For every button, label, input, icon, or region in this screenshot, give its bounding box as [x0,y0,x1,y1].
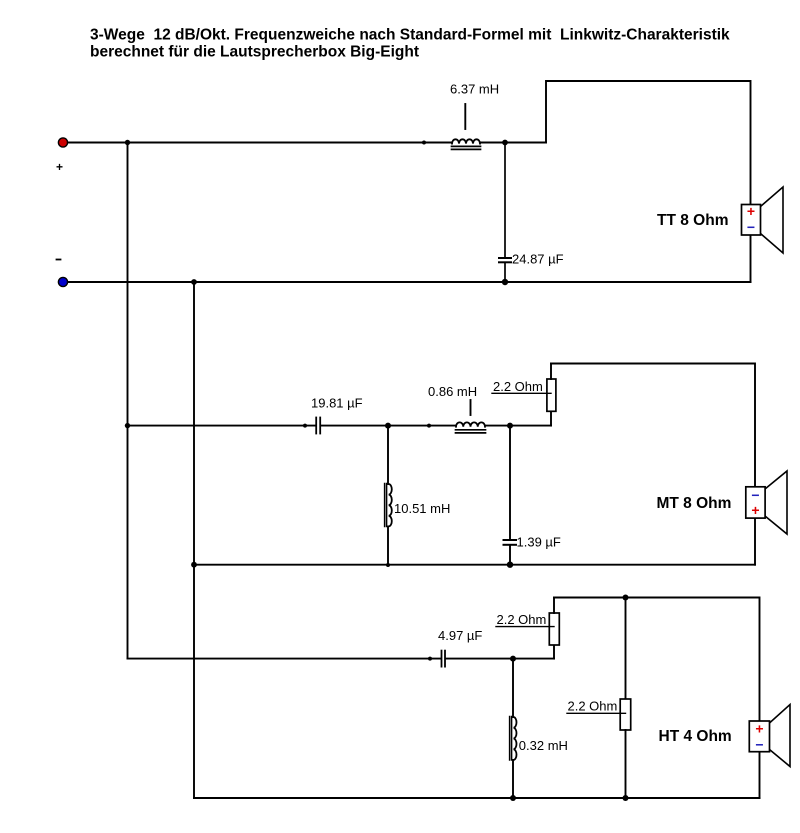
label speaker HT [659,728,732,745]
wire TT speaker to bottom [750,235,752,282]
inductor L4 10.51 mH vertical [385,426,392,565]
node HT bottom R tap [623,795,629,801]
svg-text:2.2 Ohm: 2.2 Ohm [568,699,618,714]
node TT minus tap [191,279,197,285]
title [90,27,730,61]
svg-text:10.51 mH: 10.51 mH [394,501,450,516]
capacitor C4 4.97 uF [442,651,446,667]
svg-text:6.37 mH: 6.37 mH [450,82,499,97]
node MT branch L [385,423,391,429]
label C4 [438,628,482,643]
svg-text:0.32 mH: 0.32 mH [519,738,568,753]
node HT bottom L tap [510,795,516,801]
svg-text:24.87 µF: 24.87 µF [512,252,564,267]
label C2 [311,396,363,411]
label speaker TT [657,212,728,229]
svg-text:2.2 Ohm: 2.2 Ohm [497,612,547,627]
wire MT speaker to bottom [754,518,756,565]
node MT bus tap [125,423,130,428]
svg-text:0.86 mH: 0.86 mH [428,384,477,399]
label L1 [450,82,499,97]
inductor L1 6.37 mH [452,104,481,149]
node TT cap bottom [502,279,508,285]
wire MT input [128,425,316,427]
node MT small dot 2 [427,424,431,428]
bus minus vertical [193,282,195,798]
node MT branch C [507,423,513,429]
wire MT bottom rail [194,564,755,566]
wire HT top rail [554,598,760,722]
wire MT after inductor [485,425,551,427]
wire TT inductor to step [480,142,546,144]
svg-text:−: − [747,219,755,235]
node MT small dot [303,424,307,428]
wire HT mid [446,658,554,660]
svg-text:1.39 µF: 1.39 µF [517,535,561,550]
minus label [57,259,61,261]
label L4 [394,501,450,516]
wire MT mid [321,425,456,427]
node MT bottom minus tap [191,562,197,568]
capacitor C2 19.81 uF [316,418,320,434]
label R1 [493,379,543,394]
node HT rail R tap [623,595,629,601]
terminal plus (red) [58,138,67,147]
svg-text:−: − [755,737,763,753]
inductor L3 0.32 mH vertical [510,659,517,798]
wire TT bottom rail [68,281,751,283]
terminal minus (blue) [58,277,67,286]
label L2 [428,384,477,399]
node TT small dot [422,141,426,145]
capacitor C1 24.87 uF [499,143,511,283]
node MT bottom L end [386,563,390,567]
label R3 [568,699,618,714]
node HT branch L [510,656,516,662]
label speaker MT [657,495,732,512]
svg-text:2.2 Ohm: 2.2 Ohm [493,379,543,394]
speaker TT [742,187,784,253]
wire TT step up and top rail [546,81,751,205]
resistor R3 2.2 Ohm [620,598,631,799]
svg-text:+: + [747,203,755,219]
label L3 [519,738,568,753]
node TT cap top [502,140,508,146]
svg-text:+: + [56,160,63,174]
wire TT input left [68,142,452,144]
leader R3 underline [567,712,626,714]
plus label [56,160,63,174]
inductor L2 0.86 mH [456,400,486,433]
node TT bus tap [125,140,130,145]
label C1 [512,252,564,267]
svg-text:−: − [751,487,759,503]
label R2 [497,612,547,627]
svg-text:MT 8 Ohm: MT 8 Ohm [657,495,732,512]
leader R1 underline [492,392,551,394]
svg-text:+: + [751,502,759,518]
resistor R1 2.2 Ohm [547,364,556,426]
speaker HT [749,705,790,767]
wire HT speaker to bottom [759,752,761,798]
svg-text:HT 4 Ohm: HT 4 Ohm [659,728,732,745]
wire HT input [128,658,442,660]
node HT small dot [428,657,432,661]
speaker MT [746,471,787,534]
leader R2 underline [496,626,554,628]
svg-text:+: + [755,721,763,737]
capacitor C3 1.39 uF [504,426,517,565]
svg-text:4.97 µF: 4.97 µF [438,628,482,643]
label C3 [517,535,561,550]
wire HT bottom rail [194,797,760,799]
resistor R2 2.2 Ohm [549,598,559,659]
svg-text:19.81 µF: 19.81 µF [311,396,363,411]
node MT bottom C tap [507,562,513,568]
svg-text:TT 8 Ohm: TT 8 Ohm [657,212,728,229]
bus plus vertical [127,143,129,659]
wire MT top rail [551,364,755,488]
svg-text:berechnet für die Lautsprecher: berechnet für die Lautsprecherbox Big-Ei… [90,44,419,61]
svg-text:3-Wege 12 dB/Okt. Frequenzwei: 3-Wege 12 dB/Okt. Frequenzweiche nach St… [90,27,730,44]
